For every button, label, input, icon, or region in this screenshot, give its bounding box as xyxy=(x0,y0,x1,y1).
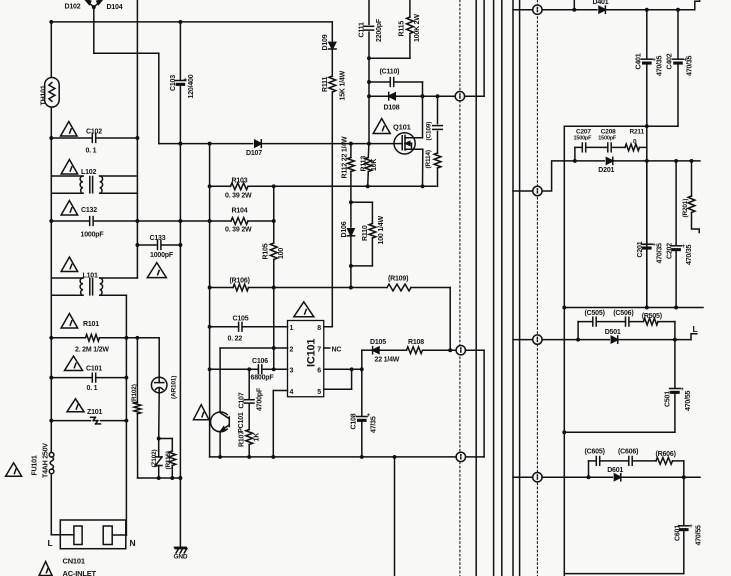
node d201 c201 xyxy=(645,159,649,163)
wire sec2 up corner xyxy=(542,161,575,191)
wire AC L to CN101 pin xyxy=(51,534,74,536)
node C107 top xyxy=(247,367,251,371)
wire C133 row b xyxy=(162,244,180,246)
svg-text:R107: R107 xyxy=(239,431,246,447)
node R115 join xyxy=(367,56,371,60)
svg-text:D105: D105 xyxy=(370,339,386,346)
capacitor C133 xyxy=(158,241,161,250)
svg-text:D106: D106 xyxy=(341,221,348,237)
wire 400 output corner xyxy=(695,0,700,10)
wire snub600 row b xyxy=(600,460,629,462)
wire C105 row b xyxy=(242,326,288,328)
svg-text:470/55: 470/55 xyxy=(696,525,703,546)
wire C132 row a xyxy=(51,220,88,222)
node pin6 d105 xyxy=(360,367,364,371)
svg-text:2. 2M 1/2W: 2. 2M 1/2W xyxy=(75,347,109,354)
svg-text:(R201): (R201) xyxy=(682,199,689,218)
wire aux stub bottom xyxy=(466,456,485,458)
node d601 c601 xyxy=(682,475,686,479)
svg-text:(C109): (C109) xyxy=(426,122,433,141)
fuse FU101 xyxy=(49,453,54,474)
node R101 r102 xyxy=(135,336,139,340)
node D108 snub xyxy=(436,94,440,98)
node d201 snub xyxy=(573,159,577,163)
wire snub200 row c xyxy=(611,146,625,148)
svg-text:R105: R105 xyxy=(263,243,270,259)
capacitor C601 xyxy=(679,526,690,531)
wire bridge down xyxy=(93,7,95,53)
svg-text:(R505): (R505) xyxy=(642,313,662,320)
node C106 left xyxy=(208,367,212,371)
node 500gnd rail xyxy=(562,430,566,434)
node d601 snubL xyxy=(587,475,591,479)
wire D105 corner up xyxy=(361,350,363,369)
wire C111 line top xyxy=(368,0,370,24)
wire R113 lower xyxy=(367,172,370,187)
transistor Q101 xyxy=(394,133,423,154)
capacitor C132 xyxy=(90,217,93,226)
resistor R104 xyxy=(231,218,248,225)
svg-text:C208: C208 xyxy=(601,128,616,135)
wire R116 bracket top xyxy=(159,438,173,440)
wire D108 row b xyxy=(395,95,455,97)
svg-text:100: 100 xyxy=(278,248,285,259)
diode D501 xyxy=(611,336,617,343)
resistor R105 xyxy=(270,243,277,260)
svg-text:10K: 10K xyxy=(371,159,378,171)
T101 winding line 3 xyxy=(501,0,503,576)
svg-text:T4AH 250V: T4AH 250V xyxy=(43,443,50,478)
wire AR101 upper xyxy=(158,338,160,377)
capacitor C105 xyxy=(239,322,242,331)
node C102 left xyxy=(49,136,53,140)
svg-text:2: 2 xyxy=(290,347,294,354)
svg-text:+: + xyxy=(183,78,187,84)
optocoupler PC101 xyxy=(211,412,230,432)
wire snub200 row a xyxy=(575,146,582,148)
svg-text:R110: R110 xyxy=(362,225,369,241)
wire D501 row b xyxy=(618,339,691,341)
wire snub200 row b xyxy=(586,146,608,148)
wire gate row b xyxy=(261,143,394,145)
node R109 d106 xyxy=(349,286,353,290)
node return z102 xyxy=(157,476,161,480)
resistor (R505) xyxy=(644,318,659,325)
svg-text:C207: C207 xyxy=(576,128,591,135)
wire sec4 stub xyxy=(513,476,533,478)
wire pin6 row xyxy=(324,368,362,370)
wire ground drop xyxy=(394,457,396,576)
svg-text:(C606): (C606) xyxy=(618,449,638,456)
wire snubber upper xyxy=(437,96,439,123)
wire R105 upper xyxy=(273,186,275,243)
node D106 bottom xyxy=(349,264,353,268)
wire AC N rail xyxy=(136,0,138,278)
wire minus rail row a xyxy=(159,143,253,145)
svg-text:C202: C202 xyxy=(667,243,674,259)
connector aux winding bottom xyxy=(456,452,465,461)
svg-text:C105: C105 xyxy=(233,316,249,323)
node Z102 top xyxy=(157,437,161,441)
node C132 c103line xyxy=(178,219,182,223)
wire sense bus vertical xyxy=(209,144,211,457)
capacitor C107 xyxy=(244,400,254,403)
wire L102 top left xyxy=(51,175,83,177)
diode D102 xyxy=(86,0,94,7)
node C101 left xyxy=(49,376,53,380)
svg-text:+: + xyxy=(689,524,693,530)
node d401 c402 xyxy=(676,8,680,12)
wire snubber lower xyxy=(437,168,439,186)
svg-text:C201: C201 xyxy=(637,241,644,257)
T101 winding line 5 xyxy=(519,0,521,576)
svg-text:0. 1: 0. 1 xyxy=(87,385,98,392)
wire C107 upper xyxy=(248,369,250,399)
svg-text:C102: C102 xyxy=(86,129,102,136)
node R104 right xyxy=(272,219,276,223)
svg-text:6: 6 xyxy=(317,368,321,375)
wire N rail to CN101 pin xyxy=(112,534,126,536)
diode D106 xyxy=(347,229,354,236)
diode D105 xyxy=(373,347,379,354)
connector sec winding 4 xyxy=(533,473,542,482)
wire C501 upper xyxy=(674,340,676,388)
wire C202 upper xyxy=(675,161,677,245)
node D106 top xyxy=(349,200,353,204)
svg-text:1500pF: 1500pF xyxy=(574,136,593,142)
svg-text:R103: R103 xyxy=(232,178,248,185)
resistor (R109) xyxy=(387,284,411,291)
wire L101 bottom right xyxy=(100,294,127,296)
warning triangle FU101 xyxy=(6,463,22,477)
svg-text:(R606): (R606) xyxy=(656,451,676,458)
svg-text:5: 5 xyxy=(317,389,321,396)
wire D106 upper xyxy=(350,202,352,227)
resistor R113 xyxy=(365,158,372,172)
resistor R110 xyxy=(369,224,376,239)
node d501 c501 xyxy=(673,338,677,342)
svg-text:(AR101): (AR101) xyxy=(171,376,178,399)
node gnd drop xyxy=(393,455,397,459)
resistor R211 xyxy=(625,144,640,151)
svg-text:22 1/4W: 22 1/4W xyxy=(375,357,400,364)
svg-text:0. 1: 0. 1 xyxy=(86,148,97,155)
wire C110 row a xyxy=(369,81,390,83)
wire snub500 left xyxy=(577,322,579,340)
diode D107 xyxy=(255,140,262,148)
wire C110 row b xyxy=(394,81,423,83)
T101 winding line 4 xyxy=(512,0,514,576)
node R101 n xyxy=(124,336,128,340)
wire R115 join xyxy=(369,57,410,59)
svg-text:(C110): (C110) xyxy=(380,69,400,76)
svg-text:6800pF: 6800pF xyxy=(251,375,275,382)
svg-text:Q101: Q101 xyxy=(393,123,411,132)
svg-text:470/35: 470/35 xyxy=(657,55,664,76)
svg-text:(R106): (R106) xyxy=(230,278,250,285)
wire primary return row xyxy=(138,477,181,479)
svg-text:L: L xyxy=(48,538,53,548)
svg-text:R101: R101 xyxy=(83,321,99,328)
svg-text:0. 39 2W: 0. 39 2W xyxy=(225,227,252,234)
wire top AC bus xyxy=(51,21,332,23)
resistor (R106) xyxy=(233,284,248,291)
svg-text:(R116): (R116) xyxy=(165,451,172,469)
node d201 r201 xyxy=(690,159,694,163)
svg-text:D109: D109 xyxy=(322,34,329,50)
node d401 offpage xyxy=(572,8,576,12)
node D108 drain xyxy=(421,94,425,98)
wire snub500 row c xyxy=(629,321,644,323)
svg-text:C401: C401 xyxy=(636,53,643,69)
wire C101 row b xyxy=(97,377,126,379)
wire D401 row b xyxy=(605,9,694,11)
wire C111 line mid xyxy=(368,32,370,144)
svg-text:R113: R113 xyxy=(361,156,368,172)
wire C402 upper xyxy=(677,10,679,59)
diode D401 xyxy=(599,6,605,13)
svg-text:C111: C111 xyxy=(359,22,366,37)
connector primary winding top xyxy=(455,92,464,101)
svg-text:2200pF: 2200pF xyxy=(376,18,383,42)
wire C102 row right xyxy=(97,137,137,139)
dashed boundary line left xyxy=(459,0,461,576)
wire R108 row c xyxy=(423,349,456,351)
node rail r209 xyxy=(208,142,212,146)
svg-text:470/35: 470/35 xyxy=(657,243,664,264)
wire R115 bottom xyxy=(409,34,411,59)
wire C106 row b xyxy=(262,368,288,370)
node midgnd c202 xyxy=(674,306,678,310)
capacitor (C606) xyxy=(629,457,632,466)
svg-text:0. 39 2W: 0. 39 2W xyxy=(225,193,252,200)
node R103 right xyxy=(272,184,276,188)
warning triangle IC101 xyxy=(294,302,314,317)
svg-text:+: + xyxy=(680,387,684,393)
svg-text:15K 1/4W: 15K 1/4W xyxy=(340,70,347,100)
svg-text:D108: D108 xyxy=(384,105,400,112)
capacitor C402 xyxy=(673,59,684,64)
resistor R111 xyxy=(329,76,336,92)
svg-text:N: N xyxy=(130,538,136,548)
wire D201 row b xyxy=(613,160,700,162)
wire C401 lower xyxy=(646,65,648,308)
node Z101 right xyxy=(124,419,128,423)
svg-text:1K: 1K xyxy=(254,433,261,442)
node return c103line xyxy=(178,476,182,480)
capacitor C208 xyxy=(608,143,611,152)
wire snub500 row a xyxy=(578,321,593,323)
wire C501 lower xyxy=(674,394,676,432)
capacitor (C605) xyxy=(596,457,599,466)
node C132 left xyxy=(49,219,53,223)
wire C108 lower xyxy=(361,422,363,457)
svg-text:CN101: CN101 xyxy=(63,557,85,566)
capacitor C111 xyxy=(364,26,373,30)
node rail c103 xyxy=(178,142,182,146)
dashed boundary line right xyxy=(536,0,538,576)
svg-text:1500pF: 1500pF xyxy=(598,136,617,142)
wire L101 top left xyxy=(51,277,83,279)
node gnd c108 xyxy=(360,455,364,459)
resistor (R606) xyxy=(656,458,673,465)
wire R107 lower xyxy=(248,445,250,457)
svg-text:1000pF: 1000pF xyxy=(150,252,174,259)
wire R105 lower xyxy=(273,260,275,370)
wire L output hook xyxy=(691,334,697,340)
resistor R108 xyxy=(407,347,423,354)
node D108 join xyxy=(367,94,371,98)
node C102 right xyxy=(135,136,139,140)
svg-text:100K 2W: 100K 2W xyxy=(414,14,421,42)
T101 winding line 6 upper xyxy=(483,0,485,96)
wire snub600 left xyxy=(588,461,590,477)
capacitor C501 xyxy=(670,389,681,394)
wire R110 lower xyxy=(371,238,373,266)
wire R106 row a xyxy=(210,287,233,289)
wire snub600 row c xyxy=(632,460,656,462)
node source r113 xyxy=(366,184,370,188)
node R104 left xyxy=(208,219,212,223)
svg-text:D102: D102 xyxy=(65,4,81,11)
svg-text:D501: D501 xyxy=(605,329,621,336)
wire snub500 row b xyxy=(596,321,625,323)
wire pin4 stub xyxy=(273,390,287,392)
wire D106 lower xyxy=(350,236,352,266)
wire aux winding bracket xyxy=(483,350,485,457)
svg-text:470/55: 470/55 xyxy=(685,390,692,411)
wire snub500 row d xyxy=(658,321,675,323)
wire R112 lower xyxy=(350,172,352,203)
wire D501 row a xyxy=(542,339,609,341)
wire R109 row c xyxy=(411,287,450,289)
svg-text:D401: D401 xyxy=(593,0,609,6)
svg-text:R104: R104 xyxy=(232,208,248,215)
warning triangle C101 xyxy=(65,356,83,371)
wire snub600 row d xyxy=(673,460,684,462)
T101 winding line 2 xyxy=(493,0,495,576)
wire pin5 stub xyxy=(324,388,352,390)
wire L101 top right xyxy=(100,277,138,279)
wire pin5 up xyxy=(351,369,353,389)
connector sec winding 2 xyxy=(533,186,542,195)
svg-text:(C505): (C505) xyxy=(585,310,605,317)
warning triangle R101 xyxy=(61,314,78,329)
node R106 right xyxy=(272,286,276,290)
wire R201 upper xyxy=(691,161,693,196)
wire snub600 right xyxy=(683,461,685,477)
svg-text:R211: R211 xyxy=(630,128,645,135)
thermistor TH101 xyxy=(45,78,60,108)
node gnd pin4 xyxy=(271,455,275,459)
capacitor C101 xyxy=(92,373,95,382)
wire C401 upper xyxy=(646,10,648,59)
capacitor C106 xyxy=(258,365,261,374)
capacitor C103 xyxy=(175,81,186,86)
svg-text:1000pF: 1000pF xyxy=(81,232,105,239)
wire 500 gnd row xyxy=(564,431,675,433)
wire D108 row a xyxy=(369,95,389,97)
wire C103 line lower xyxy=(179,86,181,547)
node source q101 xyxy=(421,184,425,188)
wire startup lower xyxy=(331,92,333,327)
node R108 r109 xyxy=(448,348,452,352)
capacitor (C110) xyxy=(390,78,393,87)
wire control ground row xyxy=(210,456,457,458)
svg-text:D601: D601 xyxy=(607,467,623,474)
node bus-L junction xyxy=(49,20,53,24)
wire C103 line upper xyxy=(179,22,181,80)
svg-text:GND: GND xyxy=(174,554,188,561)
wire snub200 left xyxy=(574,147,576,161)
svg-text:AC-INLET: AC-INLET xyxy=(63,569,97,576)
wire C102 row left xyxy=(51,137,91,139)
wire snub500 right xyxy=(674,322,676,340)
connector sec winding 3 xyxy=(533,335,542,344)
capacitor (C506) xyxy=(626,317,629,326)
svg-text:C601: C601 xyxy=(675,525,682,541)
wire R116 upper xyxy=(171,439,173,452)
svg-text:R112 22 1/4W: R112 22 1/4W xyxy=(342,136,349,179)
node return r116 xyxy=(170,476,174,480)
wire snubber mid xyxy=(437,131,439,153)
capacitor C108 xyxy=(357,417,368,422)
wire Z101 row b xyxy=(101,420,127,422)
svg-text:C108: C108 xyxy=(351,413,358,429)
wire pin2 row xyxy=(220,347,287,349)
wire snub600 row a xyxy=(589,460,597,462)
svg-text:R111: R111 xyxy=(322,77,329,92)
wire sec gnd row xyxy=(564,125,678,127)
wire AC L rail upper xyxy=(50,22,52,452)
svg-text:(R102): (R102) xyxy=(131,384,138,403)
svg-text:C103: C103 xyxy=(170,75,177,91)
node Z101 left xyxy=(49,419,53,423)
wire sec3 stub xyxy=(513,339,533,341)
wire snub200 row d xyxy=(640,146,647,148)
wire startup corner xyxy=(331,22,333,42)
node C133 left xyxy=(135,243,139,247)
resistor R112 xyxy=(348,158,355,172)
node C105 left xyxy=(208,325,212,329)
wire pin4 down xyxy=(272,391,274,457)
wire R110 bracket top xyxy=(351,201,373,203)
node gnd pc101 xyxy=(218,455,222,459)
svg-text:C132: C132 xyxy=(81,207,97,214)
wire C202 lower xyxy=(675,251,677,307)
wire D106 to row xyxy=(350,266,352,288)
wire sec gnd rail xyxy=(563,126,565,576)
wire C105 row a xyxy=(210,326,239,328)
wire winding stub top xyxy=(465,95,485,97)
wire C110 corner down xyxy=(422,82,424,96)
choke L102 xyxy=(80,176,102,193)
wire startup mid xyxy=(331,49,333,76)
wire pin8 stub xyxy=(324,326,333,328)
resistor (R102) xyxy=(134,402,141,413)
wire Z101 row a xyxy=(51,420,90,422)
wire 600 gnd row xyxy=(564,573,684,575)
warning triangle C132 xyxy=(61,201,78,216)
node C106 right xyxy=(272,367,276,371)
svg-text:7: 7 xyxy=(317,347,321,354)
node pin2 r105 xyxy=(272,346,276,350)
resistor R103 xyxy=(231,183,249,190)
svg-text:1: 1 xyxy=(290,325,294,332)
wire Z102 lower xyxy=(158,466,160,479)
resistor (R116) xyxy=(169,451,176,465)
wire D601 row a xyxy=(542,476,612,478)
